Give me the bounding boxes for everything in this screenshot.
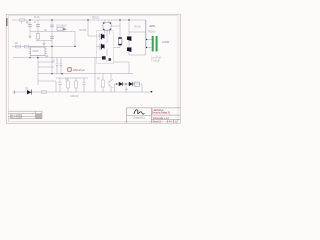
resistor R3 xyxy=(37,32,39,41)
connector CON1 green bars xyxy=(152,36,154,52)
bottom rail xyxy=(14,91,152,93)
diode D1 tick xyxy=(63,28,67,31)
sheet frame outer xyxy=(6,14,180,123)
resistor R7 xyxy=(67,78,69,92)
svg-text:F1 2A: F1 2A xyxy=(34,16,40,19)
rev table v1 xyxy=(35,111,37,119)
wire M1 channel xyxy=(100,30,110,43)
capacitor C6 xyxy=(60,58,63,74)
wire top rail xyxy=(12,19,146,21)
wire horizontal y40.5 xyxy=(36,40,52,42)
wire diode row y84 xyxy=(115,84,143,92)
title block cell v2 xyxy=(173,120,175,123)
op-amp U1 box xyxy=(31,47,46,56)
capacitor C3 xyxy=(50,25,54,27)
wire M2 channel xyxy=(96,44,107,57)
rev table line3 xyxy=(8,115,42,117)
capacitor C8 xyxy=(82,78,85,92)
node conn pin2 xyxy=(146,47,147,48)
wire long y73.5 xyxy=(38,73,133,75)
wire stub y62 xyxy=(38,61,54,63)
transistor Q4 xyxy=(109,74,113,92)
svg-text:D1 1N4007: D1 1N4007 xyxy=(56,24,67,27)
revision table xyxy=(8,111,42,119)
title block mid line xyxy=(151,114,180,116)
mosfet M1 body xyxy=(101,35,105,39)
mosfet M2 body xyxy=(101,45,105,49)
wire x52 lower xyxy=(51,58,53,74)
rev table line2 xyxy=(8,113,42,115)
rev table gray cell xyxy=(36,114,42,119)
node y58 x38 xyxy=(37,57,38,58)
diode D5 arrow xyxy=(27,90,31,94)
wire mid horizontal xyxy=(30,31,75,33)
inline component L1 xyxy=(42,90,47,93)
capacitor C1 xyxy=(28,25,32,27)
diode D7 xyxy=(129,82,133,86)
node mid x52 xyxy=(51,46,52,47)
wire U2 top pins xyxy=(105,20,109,23)
resistor R9 xyxy=(102,74,104,92)
diode D3 xyxy=(127,37,131,41)
diode D5 body xyxy=(31,90,33,95)
wire stub y81 xyxy=(38,80,56,82)
rev table v2 xyxy=(41,111,43,119)
signature xyxy=(134,110,144,114)
wire vertical x30 lower xyxy=(29,32,31,37)
title block left edge xyxy=(126,108,128,123)
node mid x75 xyxy=(74,46,75,47)
diode D6 xyxy=(119,82,123,86)
capacitor plus marks xyxy=(26,21,36,23)
wire snubber loop xyxy=(129,20,146,55)
U2 pin c xyxy=(103,29,104,30)
node y92 end xyxy=(151,91,153,93)
node y73 x62 xyxy=(61,73,62,74)
signature underline xyxy=(127,115,152,117)
sheet frame inner xyxy=(8,16,178,122)
resistor R5 xyxy=(118,38,122,45)
resistor R2 xyxy=(16,45,21,48)
title block row line xyxy=(151,119,180,121)
node rail x30 xyxy=(29,19,30,20)
capacitor C5 xyxy=(56,58,59,74)
wire vertical C2 xyxy=(37,20,39,31)
U1 pins xyxy=(29,49,48,54)
svg-text:Electronic ballast 36: Electronic ballast 36 xyxy=(152,111,171,115)
junction dots xyxy=(29,19,152,92)
terminal tick xyxy=(13,91,15,94)
left edge dark bar xyxy=(6,18,7,26)
title block divider xyxy=(150,108,152,123)
capacitor C4 xyxy=(50,37,54,39)
wire vertical x56 xyxy=(55,81,57,92)
ground G1 xyxy=(28,36,31,38)
crystal Y1 red box xyxy=(68,68,71,71)
svg-text:GND 0V: GND 0V xyxy=(71,95,79,98)
diode D1 xyxy=(57,27,63,31)
svg-text:C out 1uF: C out 1uF xyxy=(151,59,160,62)
node y73 x52 xyxy=(51,73,52,74)
node rail x88 xyxy=(87,19,88,20)
title block top line xyxy=(127,107,181,109)
wire U1 bottom xyxy=(37,56,39,59)
svg-text:Designed by: Designed by xyxy=(133,117,146,120)
capacitor C2 xyxy=(36,25,40,27)
resistor R5 end caps xyxy=(119,37,122,39)
ground G2 xyxy=(42,41,45,46)
wire vertical x129 xyxy=(128,20,130,55)
svg-text:Schematic v 1.2: Schematic v 1.2 xyxy=(153,116,170,120)
wire vertical x120 xyxy=(119,20,121,38)
svg-text:Sheet 1/1: Sheet 1/1 xyxy=(153,120,162,123)
node rail x52 xyxy=(51,19,52,20)
wire y62 right xyxy=(114,62,130,74)
node rail x120 xyxy=(119,19,120,20)
wire gate M1 xyxy=(88,20,100,36)
wire vertical x95 xyxy=(94,58,96,92)
svg-text:CON1: CON1 xyxy=(162,40,170,44)
svg-text:PC817: PC817 xyxy=(33,50,40,53)
wire vertical x38 lower xyxy=(37,58,39,85)
fuse F1 xyxy=(20,19,25,21)
U2 pin a xyxy=(103,23,104,24)
node y84 x118 xyxy=(116,83,117,84)
resistor R8 xyxy=(75,78,77,92)
U2 pin b xyxy=(110,23,111,24)
wire x30 link xyxy=(29,47,31,58)
title block cell v1 xyxy=(167,120,169,123)
svg-text:IR2153: IR2153 xyxy=(92,17,99,20)
driver U2 box xyxy=(103,23,111,31)
mosfet box outline xyxy=(97,31,114,64)
wire vertical x75 xyxy=(74,32,76,47)
svg-text:115KHZ osc: 115KHZ osc xyxy=(73,68,86,72)
diode D4 xyxy=(127,48,131,52)
wire stub y67 xyxy=(38,66,54,68)
capacitor C7 xyxy=(58,78,61,92)
bottom row stub rail xyxy=(56,77,88,79)
wire vertical x52 xyxy=(51,20,53,58)
node y84 x126 xyxy=(125,83,126,84)
svg-text:R5 10k: R5 10k xyxy=(134,25,141,28)
resistor R3b xyxy=(25,45,30,48)
component box right xyxy=(135,82,140,86)
wire vertical C1 xyxy=(29,20,31,31)
transistor Q3 body xyxy=(102,56,106,59)
node rail x129 xyxy=(128,19,129,20)
rev table line4 xyxy=(8,118,42,120)
node y58 x30 xyxy=(29,57,30,58)
svg-text:Rev 1.0 2008: Rev 1.0 2008 xyxy=(10,117,23,120)
connector pins wires xyxy=(146,20,152,48)
value labels gray xyxy=(15,16,161,98)
wire Q3 xyxy=(96,58,107,62)
wire horizontal left mid xyxy=(12,46,75,48)
wire horizontal y58 xyxy=(13,57,96,59)
rev table line1 xyxy=(8,110,42,112)
svg-text:TR 2x30: TR 2x30 xyxy=(148,31,157,34)
U2 pin d xyxy=(110,29,111,30)
svg-text:R4 470k: R4 470k xyxy=(79,29,88,32)
title block xyxy=(127,108,181,123)
node conn pin1 xyxy=(146,39,147,40)
